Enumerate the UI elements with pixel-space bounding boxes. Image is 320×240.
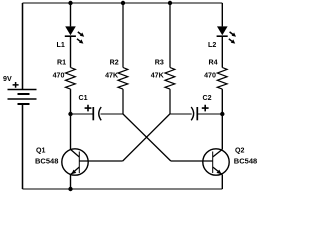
svg-text:R2: R2 bbox=[110, 59, 119, 67]
svg-text:470: 470 bbox=[204, 72, 216, 80]
svg-text:R3: R3 bbox=[155, 59, 164, 67]
svg-text:Q2: Q2 bbox=[235, 147, 245, 155]
svg-text:R1: R1 bbox=[57, 59, 66, 67]
svg-text:L1: L1 bbox=[57, 41, 65, 49]
svg-text:47K: 47K bbox=[151, 72, 165, 80]
svg-text:BC548: BC548 bbox=[35, 158, 58, 166]
svg-text:L2: L2 bbox=[208, 41, 216, 49]
svg-text:C2: C2 bbox=[203, 94, 212, 102]
svg-text:47K: 47K bbox=[105, 72, 119, 80]
svg-text:470: 470 bbox=[53, 72, 65, 80]
svg-text:C1: C1 bbox=[79, 94, 88, 102]
svg-text:R4: R4 bbox=[209, 59, 218, 67]
svg-text:9V: 9V bbox=[3, 75, 12, 83]
svg-text:BC548: BC548 bbox=[234, 158, 257, 166]
svg-text:Q1: Q1 bbox=[36, 147, 46, 155]
